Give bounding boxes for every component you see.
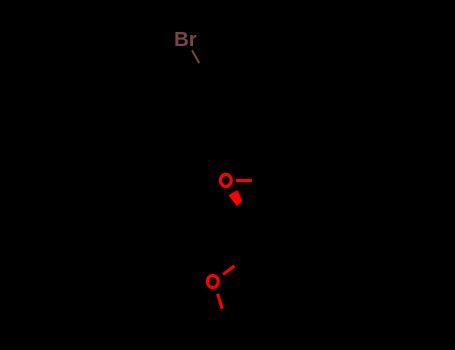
bond O2-C5 far half (black) [234,257,245,266]
chain bond to tetrahydrofuran ring (black) [245,218,248,257]
epoxide C-C bond (black) [246,181,268,218]
svg-text:Br: Br [174,29,197,51]
wedge bond far half (black) [237,201,247,217]
wedge bond O1-C3 (red solid wedge) [228,190,242,206]
bond Br-C1 far half (black) [199,63,207,77]
bond O2-C8 far half (black) [222,309,227,324]
bond O2-C8 down (red half near O2) [218,294,223,309]
bond ring-to-epoxide-carbon (black) [268,136,275,181]
bond epoxide O to right carbon, far half (black) [252,180,268,183]
atom O1 (epoxide oxygen) [220,174,231,186]
bond O1-C2 (red half near O1) [236,179,252,182]
bond O2-C5 up-right (red half near O2) [223,266,234,275]
benzene ring (black bonds, invisible on black background) [206,70,281,158]
bond Br-C1 (maroon half near Br) [192,50,199,63]
atom O2 (tetrahydrofuran oxygen) [207,275,218,287]
tetrahydrofuran ring black bonds [227,257,262,324]
